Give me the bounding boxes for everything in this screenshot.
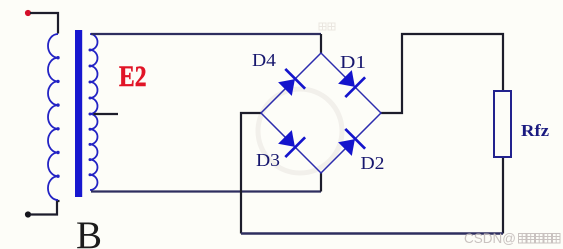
terminal red dot (primary top)	[25, 10, 31, 16]
faint watermark circle	[258, 89, 342, 173]
terminal black dot (primary bottom)	[25, 211, 31, 217]
svg-text:E2: E2	[119, 61, 147, 93]
svg-text:D4: D4	[252, 50, 276, 70]
bridge diamond arms	[261, 53, 381, 173]
wire bridge left vertex to bottom rail	[241, 113, 261, 234]
primary winding cusp curls	[56, 56, 59, 178]
wire bottom rail	[241, 232, 503, 234]
svg-text:B: B	[76, 214, 102, 249]
diode D1 (upper-right arm, pointing to right vertex)	[338, 70, 365, 97]
wire primary bottom terminal to coil	[30, 201, 60, 215]
svg-text:D1: D1	[340, 52, 366, 72]
svg-text:D3: D3	[256, 150, 280, 170]
wire stub bridge top vertex	[320, 34, 322, 53]
wire load bottom to bottom rail	[502, 157, 504, 234]
svg-text:CSDN@: CSDN@	[464, 231, 516, 246]
transformer core	[75, 30, 82, 197]
wire secondary top to bridge	[91, 33, 321, 35]
diode D4 (upper-left arm, pointing to top vertex)	[278, 69, 305, 96]
wire secondary bottom to bridge bottom stub	[91, 190, 321, 192]
wire bridge right vertex up and over to load	[381, 34, 503, 113]
wire primary top terminal to coil	[30, 13, 58, 34]
secondary winding cusp curls	[89, 49, 92, 177]
transformer T secondary winding	[90, 34, 98, 190]
diode D2 (lower-right arm, pointing to right vertex)	[338, 129, 365, 156]
svg-text:Rfz: Rfz	[521, 121, 549, 140]
secondary center tap stub	[94, 113, 119, 115]
transformer T primary winding	[48, 34, 58, 200]
wire stub bridge bottom vertex	[320, 173, 322, 192]
watermark CSDN	[464, 231, 560, 246]
faint watermark squiggle top	[319, 23, 335, 30]
svg-text:D2: D2	[361, 153, 385, 173]
diode D3 (lower-left arm, pointing to bottom vertex)	[278, 130, 305, 157]
resistor Rfz body	[494, 91, 511, 157]
